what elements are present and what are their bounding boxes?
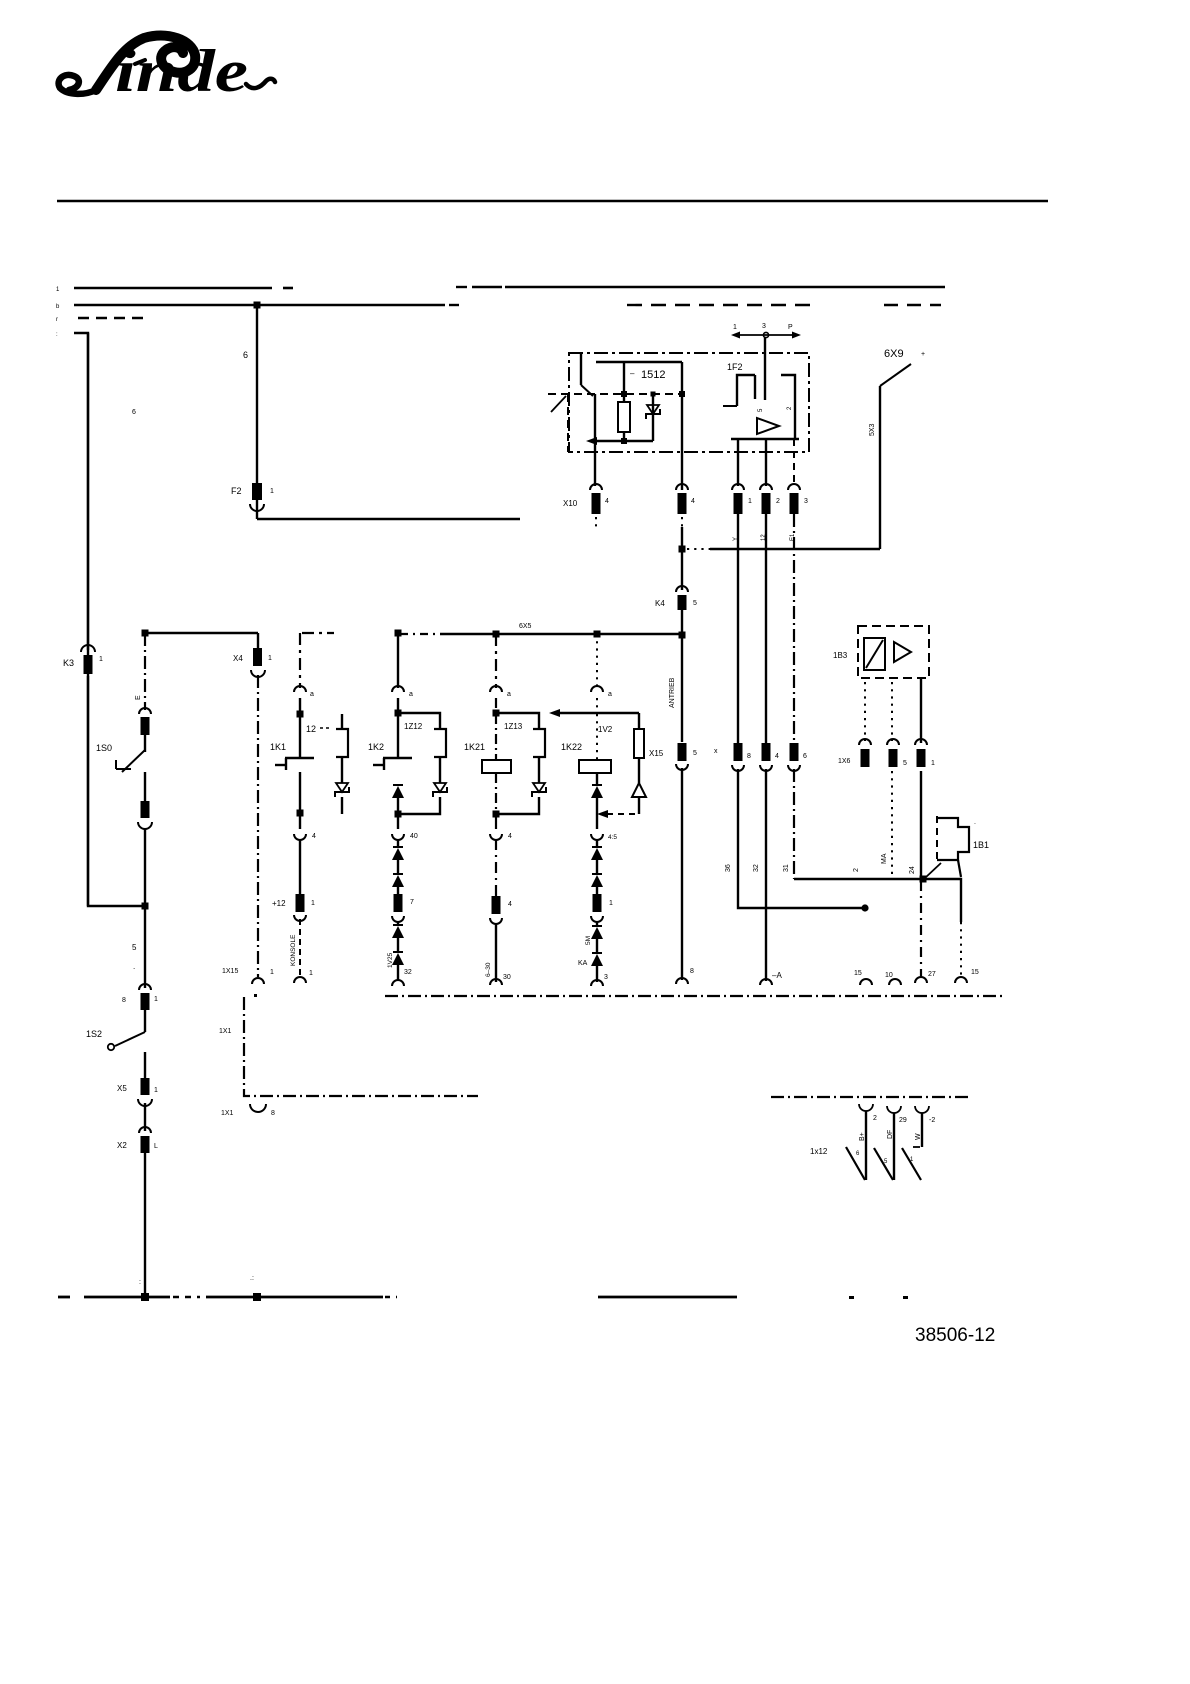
junction D bbox=[594, 631, 601, 638]
wire bbox=[681, 610, 683, 633]
wire bbox=[681, 636, 683, 742]
wire bbox=[397, 860, 399, 875]
coil 1K21 bbox=[482, 760, 511, 773]
junction B bbox=[395, 630, 402, 637]
wire D top dotted bbox=[596, 634, 598, 688]
svg-text:6: 6 bbox=[132, 409, 136, 416]
connector +12 bbox=[272, 894, 315, 921]
svg-text:1: 1 bbox=[270, 969, 274, 976]
connector bbox=[138, 801, 152, 829]
ground bus a bbox=[58, 1296, 70, 1299]
wire bbox=[397, 938, 399, 953]
ground junction 145 bbox=[139, 1279, 149, 1301]
svg-text:1X1: 1X1 bbox=[219, 1028, 232, 1035]
svg-text:1B1: 1B1 bbox=[973, 840, 989, 850]
contact wire 2 bbox=[893, 1113, 895, 1180]
arrow rail bbox=[586, 437, 653, 445]
wire bbox=[596, 860, 598, 875]
bus segment dash bbox=[302, 632, 334, 634]
svg-text:36: 36 bbox=[725, 864, 732, 872]
resistor branch D bbox=[634, 713, 644, 758]
wire bbox=[596, 921, 598, 927]
wire bbox=[681, 527, 683, 590]
junction 6X9 line bbox=[679, 546, 686, 553]
header rule bbox=[57, 200, 1048, 203]
suppressor A wire bbox=[341, 757, 343, 783]
wire dotted bbox=[596, 714, 598, 760]
suppressor A bracket bbox=[336, 714, 348, 757]
junction bus end bbox=[679, 632, 686, 639]
stub dotted 865 bbox=[864, 682, 866, 741]
svg-text:5X3: 5X3 bbox=[869, 423, 876, 436]
contact blade 3 bbox=[902, 1148, 921, 1180]
svg-text:x: x bbox=[714, 748, 718, 755]
svg-text:32: 32 bbox=[404, 969, 412, 976]
bus line 50 (dashed) bbox=[78, 317, 144, 319]
svg-text:15: 15 bbox=[854, 970, 862, 977]
wire 766 down bbox=[765, 769, 767, 981]
connector arc bbox=[392, 833, 418, 840]
wire bbox=[495, 817, 497, 829]
pin stubs bbox=[755, 337, 793, 412]
svg-text:5: 5 bbox=[693, 750, 697, 757]
wire bbox=[596, 798, 598, 829]
connector at bus bbox=[955, 969, 979, 983]
zener 1Z bbox=[646, 405, 660, 419]
svg-text:K3: K3 bbox=[63, 658, 74, 668]
bus line 30 (top) bbox=[74, 287, 945, 288]
svg-text:1K2: 1K2 bbox=[368, 742, 384, 752]
wire bbox=[299, 698, 301, 711]
svg-text:8: 8 bbox=[690, 968, 694, 975]
wire C top dash-dot bbox=[495, 634, 497, 688]
label 1F2 bbox=[727, 362, 743, 372]
svg-text:1x12: 1x12 bbox=[810, 1147, 828, 1156]
svg-text:8: 8 bbox=[122, 997, 126, 1004]
diode B2 bbox=[392, 847, 404, 860]
svg-text:15: 15 bbox=[971, 969, 979, 976]
inner dashed partition bbox=[548, 394, 681, 452]
svg-text:5M: 5M bbox=[585, 936, 592, 945]
junction on partition bbox=[679, 391, 685, 397]
connector row A bbox=[714, 743, 751, 771]
wire bbox=[397, 698, 399, 711]
wire to ground bus bbox=[144, 1153, 146, 1297]
svg-text:.: . bbox=[133, 962, 135, 971]
relay 1K22 label bbox=[561, 725, 613, 752]
svg-text:1F2: 1F2 bbox=[727, 362, 743, 372]
branch to suppressor B bbox=[398, 713, 440, 729]
junction 923 bbox=[920, 876, 927, 883]
connector at bus 895 bbox=[885, 972, 901, 985]
svg-text:2: 2 bbox=[776, 498, 780, 505]
svg-text:L: L bbox=[154, 1143, 158, 1150]
wire bbox=[398, 965, 412, 980]
junction at bus 635 start bbox=[142, 630, 149, 637]
wire 1B1 down bbox=[958, 860, 961, 877]
suppressor C wire bbox=[538, 757, 540, 783]
svg-text:1X15: 1X15 bbox=[222, 968, 238, 975]
connector 682 bbox=[676, 484, 695, 527]
drawing number 38506-12 bbox=[915, 1325, 995, 1346]
svg-text:X4: X4 bbox=[233, 654, 243, 663]
wire bbox=[496, 923, 511, 982]
wire down (dash-dot) bbox=[135, 633, 145, 710]
svg-text:1: 1 bbox=[99, 656, 103, 663]
svg-text:1S2: 1S2 bbox=[86, 1029, 102, 1039]
wire dashed bbox=[299, 919, 301, 977]
wire 921 down bbox=[920, 771, 922, 877]
wire bbox=[397, 798, 399, 811]
svg-text:6–30: 6–30 bbox=[485, 962, 492, 977]
svg-text:1V2: 1V2 bbox=[598, 725, 613, 734]
connector 738 bbox=[732, 484, 752, 514]
sensor box 1B3 bbox=[833, 626, 929, 678]
wire bbox=[596, 839, 598, 848]
drop 794 bbox=[793, 439, 795, 486]
svg-text:X15: X15 bbox=[649, 749, 664, 758]
diode D4 bbox=[585, 926, 603, 945]
wire x88 upper bbox=[87, 333, 89, 650]
wire dash-dot bbox=[495, 839, 497, 896]
dashed arrow bbox=[597, 810, 639, 818]
svg-text:–: – bbox=[630, 369, 635, 378]
svg-text:8: 8 bbox=[747, 753, 751, 760]
wire bbox=[495, 714, 497, 760]
svg-text:1512: 1512 bbox=[641, 369, 665, 381]
label 6-30 bbox=[485, 962, 492, 977]
wire 635 to x258 bbox=[145, 632, 258, 634]
connector K3 bbox=[63, 645, 103, 674]
wire end dot bbox=[861, 904, 868, 911]
svg-text:+12: +12 bbox=[272, 899, 286, 908]
zener A bbox=[335, 783, 349, 797]
svg-text:–A: –A bbox=[772, 971, 782, 980]
svg-text:a: a bbox=[409, 691, 413, 698]
connector arc bbox=[490, 833, 512, 840]
svg-text:+: + bbox=[921, 351, 925, 358]
wire bbox=[596, 939, 598, 954]
svg-text:24: 24 bbox=[909, 866, 916, 874]
bracket left bbox=[723, 375, 755, 406]
connector arc D bbox=[591, 686, 612, 698]
svg-text:1B3: 1B3 bbox=[833, 651, 848, 660]
relay 1K2 label bbox=[368, 742, 384, 752]
svg-text:1V25: 1V25 bbox=[387, 952, 394, 968]
junction bbox=[297, 810, 304, 817]
node on bus 15 bbox=[254, 302, 261, 309]
wire 921 dashdot bbox=[920, 881, 922, 977]
sensor amp bbox=[894, 642, 911, 662]
svg-text:1Z12: 1Z12 bbox=[404, 722, 423, 731]
contact wire 1 bbox=[865, 1111, 867, 1180]
connector 1X1 right bbox=[294, 970, 313, 983]
svg-text:6X9: 6X9 bbox=[884, 348, 904, 360]
transistor 1K2 bbox=[373, 758, 412, 770]
svg-text:K4: K4 bbox=[655, 599, 665, 608]
connector X4 bbox=[233, 633, 272, 677]
svg-text:KONSOLE: KONSOLE bbox=[290, 934, 297, 966]
Linde logo bbox=[59, 36, 275, 104]
wire + return bbox=[496, 797, 539, 814]
connector K4 bbox=[655, 586, 697, 610]
sensor square bbox=[864, 638, 885, 670]
junction C bbox=[493, 631, 500, 638]
svg-text:2: 2 bbox=[873, 1115, 877, 1122]
wire to 6X9 bbox=[687, 548, 880, 550]
connector at bus bbox=[915, 971, 936, 983]
svg-text:1: 1 bbox=[268, 655, 272, 662]
connector on x145 bbox=[139, 708, 151, 735]
svg-text:27: 27 bbox=[928, 971, 936, 978]
pin labels row bbox=[725, 853, 916, 874]
svg-text:KA: KA bbox=[578, 960, 588, 967]
svg-text:4: 4 bbox=[775, 753, 779, 760]
wire B to transistor bbox=[397, 715, 399, 758]
faint mark bbox=[132, 409, 136, 416]
wire bbox=[397, 839, 399, 848]
svg-text:8: 8 bbox=[271, 1110, 275, 1117]
svg-text:1: 1 bbox=[270, 488, 274, 495]
wire dotted bbox=[596, 698, 598, 711]
transistor 1K11 bbox=[275, 758, 314, 770]
connector arc below bbox=[221, 1104, 275, 1117]
svg-text:W: W bbox=[915, 1133, 922, 1140]
wire dash-dot down bbox=[257, 675, 259, 977]
relay 1K21 label bbox=[464, 742, 485, 752]
connector at bus bbox=[760, 971, 782, 985]
svg-text:6X5: 6X5 bbox=[519, 623, 532, 630]
wire bbox=[597, 966, 608, 982]
aux bus right bbox=[771, 1096, 971, 1098]
contact arc 2 bbox=[873, 1106, 901, 1122]
wire bbox=[299, 839, 301, 894]
setpoint scale bbox=[731, 323, 801, 339]
wire bbox=[144, 1052, 146, 1078]
coil 1K22 bbox=[579, 760, 611, 773]
svg-text:ANTRIEB: ANTRIEB bbox=[669, 677, 676, 708]
svg-text:4:5: 4:5 bbox=[608, 834, 617, 841]
wire below transistor bbox=[299, 772, 301, 810]
junction C2 bbox=[493, 710, 500, 717]
svg-text:1X6: 1X6 bbox=[838, 758, 851, 765]
svg-text:4: 4 bbox=[508, 833, 512, 840]
control box outline bbox=[569, 353, 809, 452]
connector row C bbox=[788, 743, 807, 771]
wire 794 down bbox=[793, 514, 795, 743]
svg-text:6: 6 bbox=[243, 350, 248, 360]
svg-text:4: 4 bbox=[691, 498, 695, 505]
contact wire 3 bbox=[921, 1113, 923, 1147]
wire down to fuse F2 bbox=[243, 305, 257, 483]
diode D5 bbox=[578, 953, 603, 967]
wire below resistor bbox=[621, 432, 627, 444]
diode D1 bbox=[591, 785, 603, 798]
wire bbox=[341, 797, 343, 814]
wire bbox=[299, 816, 301, 829]
connector arc B bbox=[392, 686, 413, 698]
connector 1X6 c bbox=[915, 739, 935, 767]
svg-text:10: 10 bbox=[885, 972, 893, 979]
relay 1K11 labels bbox=[270, 724, 330, 752]
connector 1X1 left bbox=[222, 968, 274, 997]
svg-text:4: 4 bbox=[605, 498, 609, 505]
svg-text:1: 1 bbox=[154, 1087, 158, 1094]
connector at bus bbox=[392, 980, 404, 986]
svg-text:3: 3 bbox=[804, 498, 808, 505]
wire from F2 to row bbox=[257, 500, 520, 519]
wire dotted 892 bbox=[891, 771, 893, 880]
wire bbox=[638, 797, 640, 814]
zener C bbox=[532, 783, 546, 797]
connector bbox=[490, 896, 512, 924]
svg-text:32: 32 bbox=[753, 864, 760, 872]
crossbar 879 bbox=[794, 879, 961, 922]
svg-text:7: 7 bbox=[410, 899, 414, 906]
svg-text:-2: -2 bbox=[929, 1117, 935, 1124]
svg-text:1: 1 bbox=[931, 760, 935, 767]
drop 766 bbox=[765, 439, 767, 486]
connector at bus bbox=[676, 978, 688, 984]
svg-text:5: 5 bbox=[132, 943, 137, 952]
wire bbox=[144, 1103, 146, 1131]
diode B5 bbox=[392, 952, 404, 965]
svg-text:1: 1 bbox=[309, 970, 313, 977]
svg-text:2: 2 bbox=[853, 868, 860, 872]
svg-text:.:: .: bbox=[250, 1275, 254, 1282]
connector bbox=[122, 984, 158, 1010]
wire bbox=[638, 758, 640, 783]
svg-text:4: 4 bbox=[508, 901, 512, 908]
suppressor C bracket bbox=[504, 722, 545, 757]
svg-text:40: 40 bbox=[410, 833, 418, 840]
junction B2 bbox=[395, 710, 402, 717]
connector 794 bbox=[788, 484, 808, 514]
bus terminal labels bbox=[56, 287, 60, 338]
svg-text:a: a bbox=[507, 691, 511, 698]
wire + return bbox=[398, 797, 440, 814]
diode D2 bbox=[591, 847, 603, 860]
wire bbox=[144, 772, 146, 801]
wire 766 down bbox=[765, 514, 767, 743]
junction bbox=[493, 811, 500, 818]
wire 794 dash-dot bbox=[793, 769, 795, 879]
wire x88 lower + corner bbox=[88, 676, 145, 906]
svg-text:4: 4 bbox=[312, 833, 316, 840]
wire bbox=[495, 698, 497, 711]
bus 634 main bbox=[400, 623, 682, 634]
wire 738 down bbox=[737, 514, 739, 743]
resistor 1R1 bbox=[618, 402, 630, 432]
resistor feed bbox=[621, 362, 665, 402]
contact blade 2 bbox=[874, 1148, 893, 1180]
varistor triangle bbox=[632, 783, 646, 797]
wire A top dash-dot bbox=[299, 633, 301, 688]
connector bbox=[392, 894, 414, 922]
svg-text:r: r bbox=[56, 317, 58, 323]
svg-text:38506-12: 38506-12 bbox=[915, 1325, 995, 1346]
svg-text:1Z13: 1Z13 bbox=[504, 722, 523, 731]
fuse F2 connector bbox=[231, 483, 274, 511]
svg-text:P: P bbox=[788, 324, 793, 331]
ground bus dots bbox=[849, 1296, 908, 1299]
svg-text:1K21: 1K21 bbox=[464, 742, 485, 752]
svg-text:3: 3 bbox=[762, 323, 766, 330]
svg-text:E: E bbox=[135, 695, 142, 700]
svg-text:29: 29 bbox=[899, 1117, 907, 1124]
zener B bbox=[433, 783, 447, 797]
wire dash-dot L bbox=[219, 997, 478, 1096]
svg-text:B+: B+ bbox=[859, 1132, 866, 1141]
svg-text:3: 3 bbox=[604, 974, 608, 981]
svg-text:.: . bbox=[974, 819, 976, 826]
ground bus d bbox=[598, 1296, 737, 1299]
wire B top bbox=[397, 634, 399, 688]
switch hook bbox=[551, 396, 566, 412]
slash mark bbox=[925, 863, 941, 878]
svg-text:1X1: 1X1 bbox=[221, 1110, 234, 1117]
svg-text::: : bbox=[139, 1279, 141, 1286]
pin labels bbox=[733, 533, 796, 541]
connector X2 bbox=[117, 1127, 158, 1153]
junction x145/x88 bbox=[142, 903, 149, 910]
wire bbox=[495, 773, 497, 811]
svg-text:a: a bbox=[608, 691, 612, 698]
top rail in box bbox=[596, 361, 682, 363]
wire 921 bbox=[920, 678, 922, 743]
svg-text:X5: X5 bbox=[117, 1084, 127, 1093]
wire bbox=[397, 817, 399, 829]
bus line 15 bbox=[74, 304, 941, 307]
diode B3 bbox=[392, 874, 404, 887]
actuate arrow bbox=[549, 709, 639, 717]
connector arc bbox=[294, 833, 316, 840]
connector bbox=[591, 894, 613, 922]
box switch bbox=[581, 353, 593, 396]
diode B1 bbox=[392, 785, 404, 798]
suppressor B wire bbox=[439, 757, 441, 783]
label KONSOLE bbox=[290, 934, 297, 966]
svg-text:MA: MA bbox=[881, 853, 888, 864]
label 1x12 bbox=[810, 1147, 920, 1165]
stub dotted 892 bbox=[891, 682, 893, 741]
diode B4 bbox=[392, 925, 404, 938]
wire bbox=[397, 921, 399, 926]
junction A bbox=[297, 711, 304, 718]
drop 738 bbox=[737, 439, 739, 486]
wire 738 to corner bbox=[738, 769, 865, 908]
bracket right bbox=[781, 375, 795, 439]
connector arc A bbox=[294, 686, 314, 698]
svg-text:30: 30 bbox=[503, 974, 511, 981]
diode D3 bbox=[591, 874, 603, 887]
wire bbox=[596, 773, 598, 784]
connector X15 bbox=[649, 743, 697, 770]
connector arc C bbox=[490, 686, 511, 698]
zener branch bbox=[651, 392, 656, 442]
svg-text:1: 1 bbox=[311, 900, 315, 907]
wire left branch bbox=[594, 394, 596, 486]
svg-text:1: 1 bbox=[609, 900, 613, 907]
connector 766 bbox=[760, 484, 780, 514]
svg-text:6: 6 bbox=[803, 753, 807, 760]
amp triangle bbox=[757, 418, 779, 434]
junction bbox=[395, 811, 402, 818]
svg-text:31: 31 bbox=[783, 864, 790, 872]
riser 6X9 bbox=[869, 348, 925, 549]
wire bbox=[596, 887, 598, 894]
connector X10 bbox=[563, 484, 609, 527]
